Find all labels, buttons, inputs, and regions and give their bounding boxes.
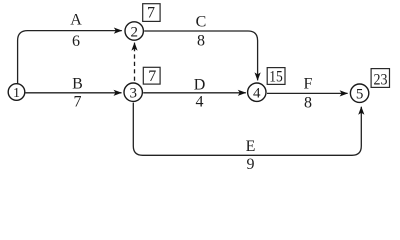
node 3 <box>124 83 142 102</box>
svg-text:4: 4 <box>253 86 261 102</box>
value box 15 at node 4 <box>267 68 285 86</box>
wire edge D (3→4) <box>143 92 246 94</box>
value box 7 at node 3 <box>143 67 160 85</box>
svg-text:8: 8 <box>197 32 205 49</box>
svg-text:15: 15 <box>269 68 283 85</box>
svg-text:6: 6 <box>72 33 80 50</box>
label C/8 on edge C <box>196 14 207 50</box>
value box 23 at node 5 <box>371 69 389 89</box>
label D/4 on edge D <box>194 77 206 111</box>
svg-text:2: 2 <box>130 24 138 40</box>
wire edge C (2→4) <box>144 31 257 80</box>
svg-text:8: 8 <box>304 95 312 112</box>
svg-text:7: 7 <box>148 68 156 85</box>
value box 7 at node 2 <box>143 4 160 22</box>
svg-text:9: 9 <box>247 156 255 173</box>
svg-text:F: F <box>304 75 313 92</box>
svg-text:1: 1 <box>13 86 20 101</box>
wire edge E (3→5) <box>133 103 361 156</box>
node 5 <box>350 84 368 103</box>
wire dashed dummy edge (3→2) <box>134 43 136 81</box>
svg-text:E: E <box>246 138 256 155</box>
label F/8 on edge F <box>304 75 313 111</box>
svg-text:4: 4 <box>196 93 204 110</box>
svg-text:A: A <box>70 11 82 28</box>
svg-text:5: 5 <box>356 87 364 103</box>
label B/7 on edge B <box>72 76 83 111</box>
wire edge B (1→3) <box>26 92 122 94</box>
svg-text:D: D <box>194 77 206 94</box>
svg-text:7: 7 <box>147 5 155 22</box>
svg-text:B: B <box>72 76 83 93</box>
label E/9 on edge E <box>246 138 256 173</box>
wire edge F (4→5) <box>267 92 348 94</box>
svg-text:23: 23 <box>374 71 388 88</box>
wire edge A (1→2) <box>18 31 122 84</box>
svg-text:C: C <box>196 14 207 31</box>
svg-text:7: 7 <box>74 93 82 110</box>
node 2 <box>125 22 143 41</box>
label A/6 on edge A <box>70 11 82 50</box>
node 1 <box>8 84 25 102</box>
svg-text:3: 3 <box>129 86 137 102</box>
node 4 <box>248 83 266 102</box>
